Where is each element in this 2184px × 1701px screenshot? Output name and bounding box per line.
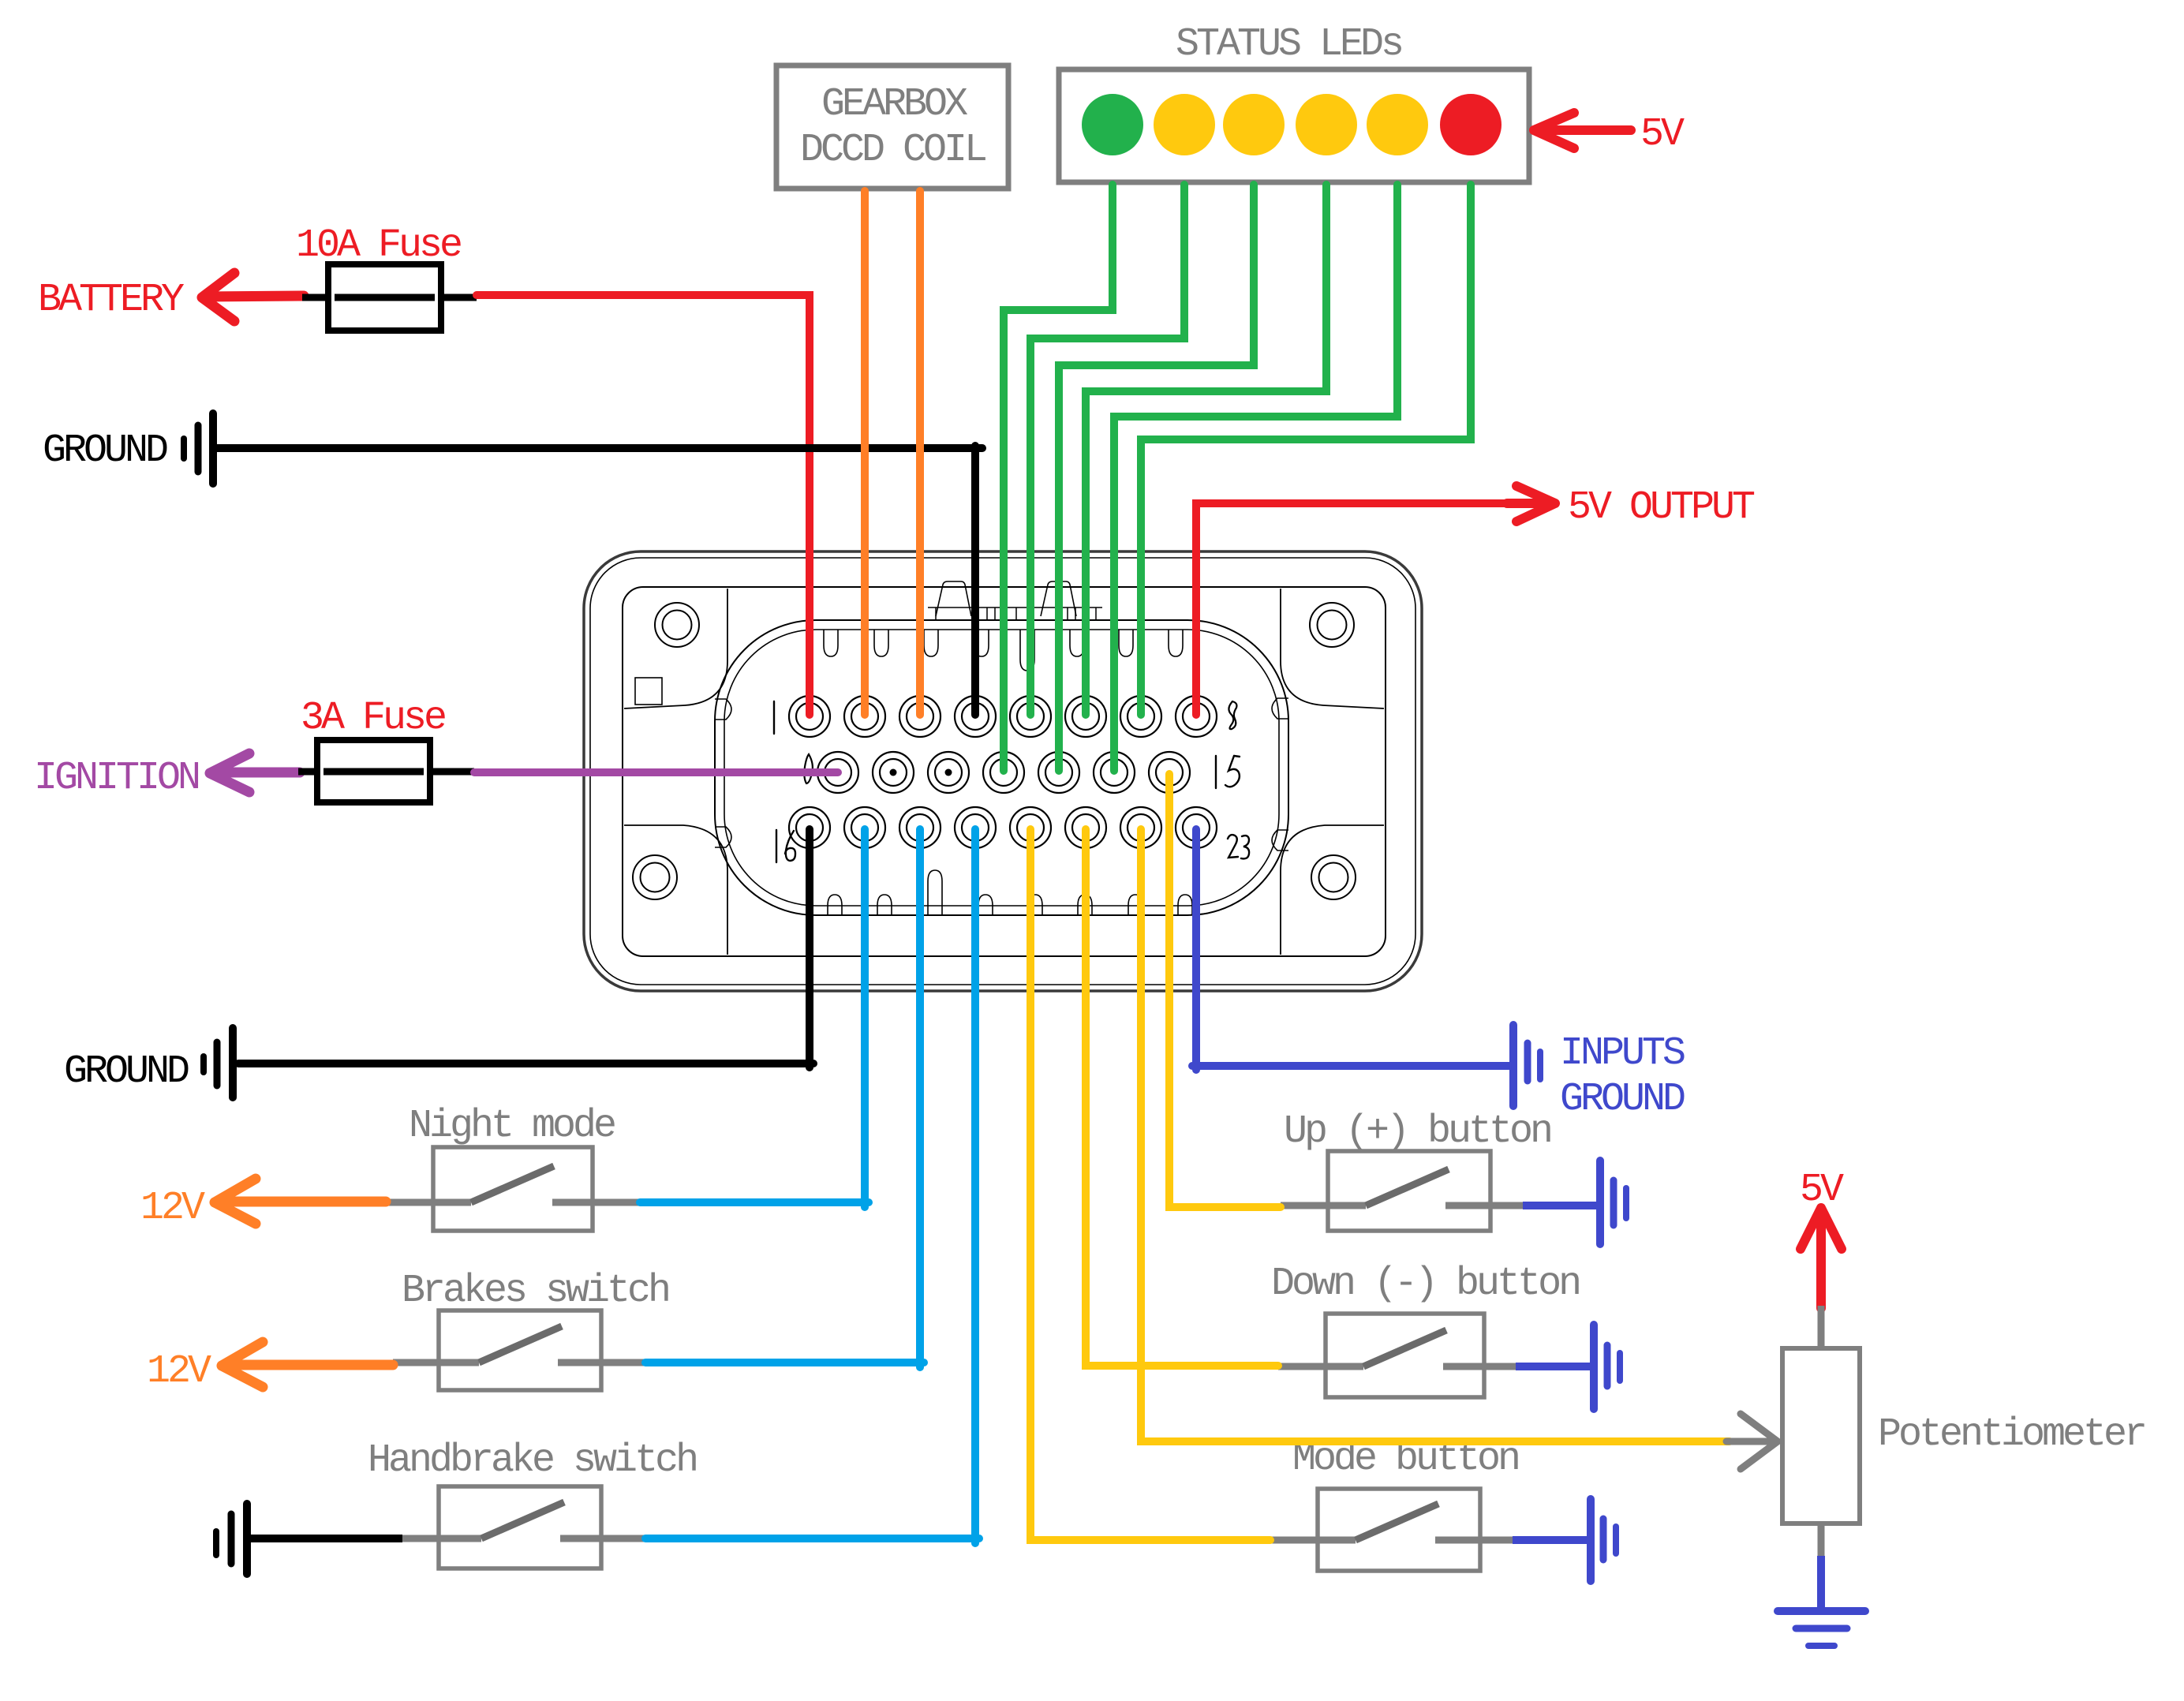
wire LED1 green to pin 12	[1004, 185, 1113, 771]
label 12V (night)	[140, 1186, 205, 1231]
pin 13	[1038, 752, 1079, 793]
LED 2 yellow	[1154, 94, 1215, 155]
wire fuse F1 lead left (black)	[302, 294, 477, 301]
switch Down button	[1278, 1314, 1519, 1397]
svg-text:IGNITION: IGNITION	[34, 756, 199, 801]
pin 1	[789, 696, 830, 737]
pin 5	[1010, 696, 1051, 737]
wire fuse F2 lead (black)	[298, 768, 474, 776]
pin 18	[899, 807, 941, 848]
box GEARBOX DCCD COIL	[776, 65, 1008, 189]
ground symbol chassis (upper)	[184, 413, 213, 484]
svg-text:Night mode: Night mode	[409, 1104, 615, 1149]
svg-text:5V OUTPUT: 5V OUTPUT	[1568, 485, 1755, 530]
screw hole bottom-right	[1311, 855, 1356, 899]
pin 23	[1176, 807, 1217, 848]
wire LED6 green to pin 7	[1141, 185, 1471, 715]
wire brakes turquoise to pin 18	[645, 829, 924, 1367]
connector J1 23-pin	[584, 551, 1422, 991]
svg-text:Down (-) button: Down (-) button	[1271, 1262, 1579, 1307]
pin 14	[1094, 752, 1135, 793]
svg-text:5V: 5V	[1640, 112, 1685, 157]
wire up button gold from pin 15	[1169, 774, 1281, 1207]
pin 6	[1065, 696, 1106, 737]
svg-text:3A Fuse: 3A Fuse	[301, 696, 445, 741]
latch tower left	[936, 581, 971, 616]
seal notch right lower	[1272, 830, 1288, 850]
wire 5V output red from pin 8	[1196, 503, 1510, 715]
pin label 23	[1228, 835, 1249, 858]
fuse F1 10A	[328, 264, 441, 331]
label IGNITION	[34, 756, 199, 801]
ground symbol up button	[1600, 1161, 1626, 1244]
label INPUTS	[1560, 1031, 1685, 1076]
pin label 16	[776, 830, 795, 862]
wire LED4 green to pin 6	[1086, 185, 1326, 715]
switch Night mode	[386, 1147, 640, 1231]
pin 17	[844, 807, 885, 848]
latch ruler strip	[928, 607, 1102, 620]
label Handbrake switch	[368, 1438, 696, 1483]
seal rib teardrops top	[824, 630, 1183, 671]
wire up button indigo to ground	[1523, 1202, 1597, 1209]
label Up (+) button	[1284, 1109, 1550, 1154]
label Brakes switch	[402, 1269, 668, 1314]
connector seal inner	[724, 630, 1279, 906]
pin 21	[1065, 807, 1106, 848]
potentiometer body	[1782, 1348, 1860, 1523]
label 5V (potentiometer)	[1800, 1168, 1844, 1213]
label Night mode	[409, 1104, 615, 1149]
wire down button gold from pin 21	[1086, 829, 1278, 1366]
wire gearbox coil orange to pin 2	[861, 191, 869, 715]
connector ear bottom-left	[624, 825, 727, 955]
arrow 12V night	[215, 1179, 386, 1224]
svg-text:Handbrake switch: Handbrake switch	[368, 1438, 696, 1483]
label Mode button	[1292, 1437, 1518, 1482]
ground symbol chassis (handbrake)	[216, 1504, 247, 1574]
latch tower right	[1041, 581, 1076, 616]
wire ground black to pin 4	[216, 446, 982, 715]
pin 2	[844, 696, 885, 737]
wire mode button indigo to ground	[1513, 1536, 1587, 1544]
connector outer shell	[584, 551, 1422, 991]
pin label 8	[1228, 701, 1236, 729]
pin label 1	[773, 701, 775, 734]
potentiometer top lead	[1818, 1306, 1825, 1351]
svg-text:Up (+) button: Up (+) button	[1284, 1109, 1550, 1154]
svg-text:12V: 12V	[140, 1186, 205, 1231]
ground symbol earth (potentiometer)	[1778, 1611, 1865, 1646]
wire mode button gold from pin 20	[1030, 829, 1270, 1540]
wire ground black from pin 16	[238, 829, 813, 1067]
svg-text:12V: 12V	[147, 1349, 211, 1394]
seal notch right upper	[1272, 698, 1288, 719]
arrow to ignition	[210, 753, 300, 792]
pin 8	[1176, 696, 1217, 737]
wire down button indigo to ground	[1516, 1363, 1591, 1370]
svg-text:BATTERY: BATTERY	[38, 278, 185, 323]
connector seal outer	[715, 620, 1288, 915]
pin label 9	[804, 754, 813, 783]
screw hole top-right	[1310, 603, 1354, 647]
svg-text:GROUND: GROUND	[43, 428, 167, 473]
arrow 5V OUTPUT	[1507, 486, 1555, 522]
seal notch left upper	[715, 699, 731, 720]
pin 3	[899, 696, 941, 737]
svg-text:Brakes switch: Brakes switch	[402, 1269, 668, 1314]
label 10A Fuse	[296, 223, 461, 268]
arrow potentiometer wiper gray	[1726, 1414, 1778, 1469]
wire gearbox coil orange to pin 3	[916, 191, 924, 715]
LED 4 yellow	[1296, 94, 1357, 155]
connector ear top-left	[624, 589, 727, 708]
switch Mode button	[1270, 1489, 1516, 1571]
svg-text:GEARBOX: GEARBOX	[821, 82, 968, 127]
screw hole top-left	[655, 603, 699, 647]
label 5V OUTPUT	[1568, 485, 1755, 530]
box status LEDs	[1059, 69, 1529, 182]
fuse F2 3A	[317, 740, 430, 802]
screw hole bottom-left	[633, 855, 677, 899]
wire LED3 green to pin 13	[1059, 185, 1254, 771]
svg-text:Potentiometer: Potentiometer	[1878, 1412, 2145, 1457]
connector ear bottom-right	[1281, 825, 1384, 955]
wire battery red to pin 1	[477, 295, 810, 715]
svg-text:GROUND: GROUND	[1560, 1077, 1685, 1122]
LED 6 red	[1440, 94, 1501, 155]
label GROUND (upper)	[43, 428, 167, 473]
connector ear top-right	[1281, 589, 1384, 708]
pin label 15	[1216, 756, 1240, 788]
switch Up button	[1281, 1151, 1526, 1231]
pin 16	[789, 807, 830, 848]
wire inputs ground indigo from pin 23	[1192, 829, 1510, 1070]
arrow 5V into LED box	[1534, 113, 1631, 148]
pin 12	[983, 752, 1024, 793]
label BATTERY	[38, 278, 185, 323]
pin 19	[955, 807, 996, 848]
pin 9	[817, 752, 858, 793]
pin 11	[928, 752, 969, 793]
ground symbol mode button	[1591, 1499, 1616, 1581]
label GROUND (inputs)	[1560, 1077, 1685, 1122]
svg-text:STATUS LEDs: STATUS LEDs	[1176, 22, 1401, 67]
connector flange	[623, 587, 1386, 956]
label STATUS LEDs	[1176, 22, 1401, 67]
label 5V (LEDs)	[1640, 112, 1685, 157]
ground symbol inputs (indigo)	[1513, 1025, 1540, 1106]
ground symbol down button	[1594, 1325, 1620, 1409]
svg-text:INPUTS: INPUTS	[1560, 1031, 1685, 1076]
wire handbrake turquoise to pin 19	[645, 829, 979, 1543]
svg-text:DCCD COIL: DCCD COIL	[800, 128, 985, 173]
LED 3 yellow	[1223, 94, 1285, 155]
wire LED2 green to pin 5	[1030, 185, 1184, 715]
pin 20	[1010, 807, 1051, 848]
LED 5 yellow	[1367, 94, 1428, 155]
arrow to battery	[202, 273, 304, 321]
wire night mode turquoise to pin 17	[640, 829, 869, 1207]
svg-text:GROUND: GROUND	[64, 1049, 189, 1094]
wire handbrake ground black	[250, 1535, 402, 1542]
switch Handbrake	[402, 1486, 645, 1568]
pin 7	[1120, 696, 1161, 737]
pin 4	[955, 696, 996, 737]
pin 10	[873, 752, 914, 793]
keying square mark	[635, 678, 662, 705]
label GROUND (lower)	[64, 1049, 189, 1094]
label Potentiometer	[1878, 1412, 2145, 1457]
label Down (-) button	[1271, 1262, 1579, 1307]
switch Brakes	[393, 1310, 645, 1390]
LED 1 green	[1082, 94, 1143, 155]
potentiometer bottom lead	[1818, 1523, 1825, 1560]
ground symbol chassis (lower)	[204, 1028, 233, 1097]
label 3A Fuse	[301, 696, 445, 741]
arrow 5V potentiometer up	[1801, 1208, 1842, 1308]
pin 22	[1120, 807, 1161, 848]
label 12V (brakes)	[147, 1349, 211, 1394]
seal rib bumps bottom	[828, 870, 1192, 915]
arrow 12V brakes	[222, 1342, 393, 1387]
wire potentiometer wiper gold from pin 22	[1141, 829, 1730, 1441]
seal notch left lower	[715, 827, 731, 847]
wire LED5 green to pin 14	[1114, 185, 1397, 771]
pin 15	[1149, 752, 1190, 793]
wire ignition purple to pin 9	[474, 768, 838, 776]
wire potentiometer ground indigo	[1817, 1556, 1825, 1609]
